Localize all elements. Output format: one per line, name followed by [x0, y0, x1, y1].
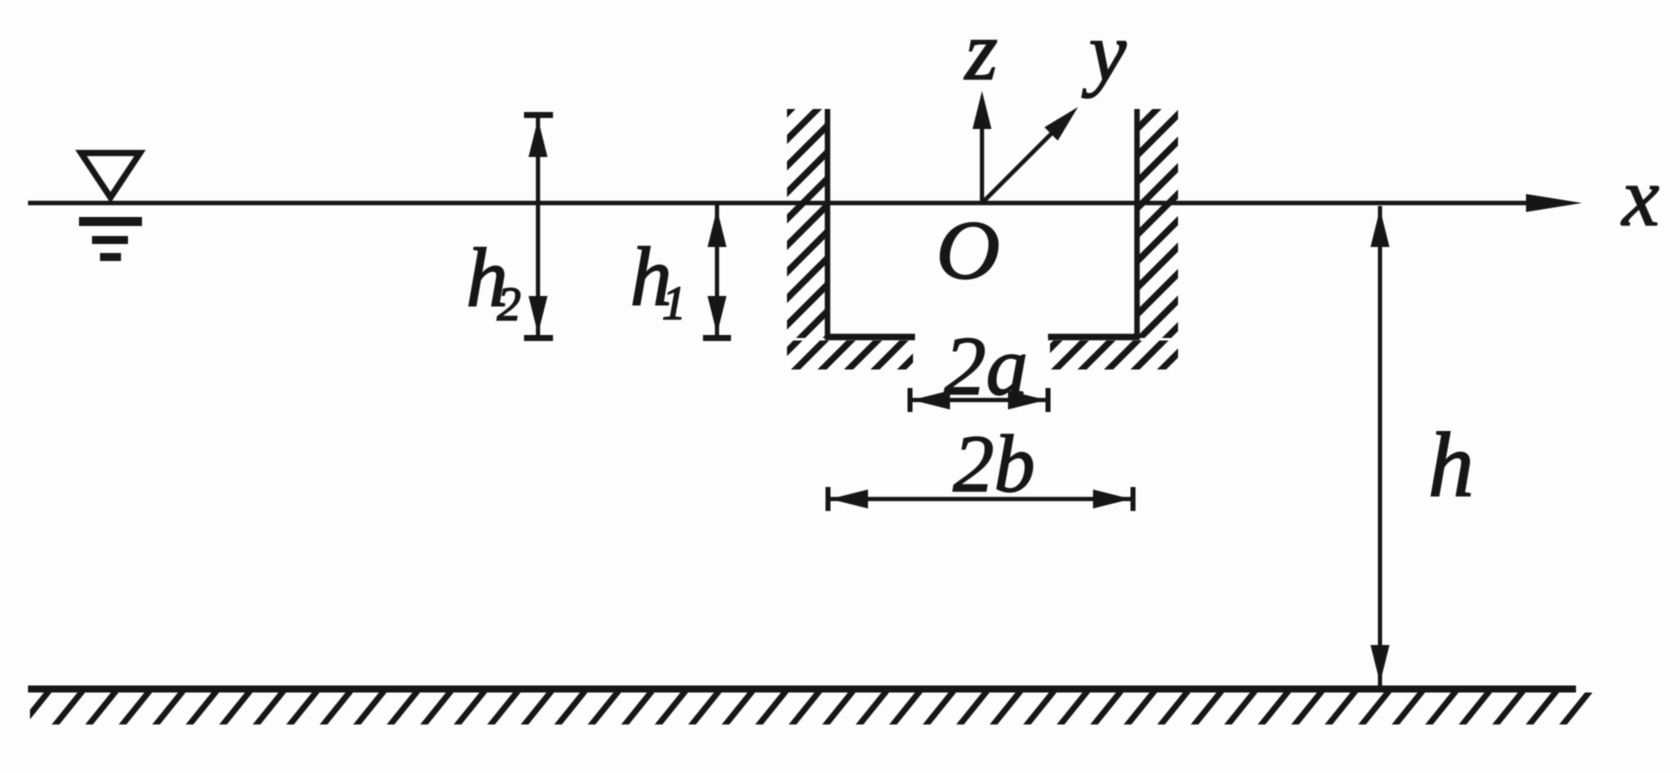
svg-text:z: z	[964, 5, 998, 98]
svg-text:h: h	[1428, 414, 1474, 516]
svg-text:2b: 2b	[953, 418, 1035, 509]
svg-text:y: y	[1081, 6, 1127, 99]
svg-text:O: O	[936, 204, 1000, 297]
svg-text:x: x	[1620, 151, 1659, 244]
svg-text:2a: 2a	[944, 320, 1028, 413]
svg-text:2: 2	[497, 278, 521, 331]
svg-text:1: 1	[662, 277, 686, 330]
